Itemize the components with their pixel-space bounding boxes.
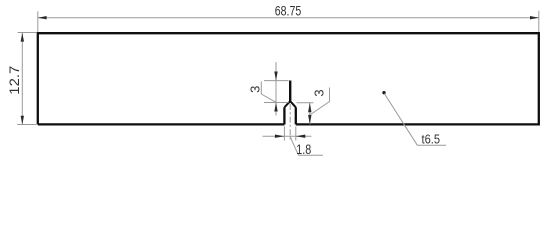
- dimension 1.8 right arrowhead: [296, 135, 306, 138]
- dimension 3 (left) extension line bottom: [264, 102, 289, 104]
- svg-text:t6.5: t6.5: [422, 131, 441, 146]
- dimension 1.8 extension line left: [283, 126, 285, 140]
- dimension 12.7 top arrowhead: [21, 33, 24, 42]
- dimension 3 (right) dimension line: [309, 103, 311, 125]
- notch slit: [289, 81, 291, 102]
- dimension 1.8 extension line right: [295, 126, 297, 140]
- notch slot right side: [295, 107, 297, 124]
- dimension 3 (right) top arrowhead: [308, 103, 311, 113]
- dimension 68.75 right arrowhead: [530, 16, 539, 19]
- svg-text:68.75: 68.75: [275, 3, 302, 18]
- thickness callout leader: [384, 94, 446, 146]
- dimension 3 (right) leader: [310, 88, 330, 116]
- dimension 3 (left) leader: [261, 82, 276, 103]
- dimension 3 (left) bottom arrowhead: [274, 103, 277, 112]
- dimension 68.75 extension line left: [37, 11, 39, 32]
- dimension 12.7 dimension line: [21, 33, 23, 125]
- dimension 3 (left) dimension line: [275, 62, 277, 116]
- dimension 68.75 dimension line: [38, 17, 539, 19]
- svg-text:3: 3: [248, 86, 263, 93]
- svg-text:3: 3: [312, 89, 327, 96]
- dimension 1.8 leader: [290, 136, 323, 155]
- notch slot left side: [283, 107, 285, 124]
- notch centerline (dashed): [289, 104, 291, 140]
- thickness callout dot: [382, 91, 385, 94]
- dimension 68.75 extension line right: [538, 11, 540, 32]
- dimension 1.8 left arrowhead: [275, 135, 285, 138]
- svg-text:1.8: 1.8: [296, 142, 311, 157]
- dimension 1.8 dimension line: [263, 135, 312, 137]
- dimension 3 (right, slot depth) extension line: [297, 102, 314, 104]
- dimension 3 (right) bottom arrowhead: [308, 115, 311, 125]
- dimension 3 (left) top arrowhead: [274, 72, 277, 81]
- dimension 3 (left, slit depth) extension line top: [264, 80, 289, 82]
- dimension 68.75 left arrowhead: [38, 16, 47, 19]
- notch taper right: [290, 101, 296, 107]
- dimension 12.7 bottom arrowhead: [21, 116, 24, 125]
- plate outline: [38, 33, 539, 124]
- dimension 12.7 extension line bottom: [17, 124, 36, 126]
- dimension 12.7 extension line top: [18, 32, 37, 34]
- svg-text:12.7: 12.7: [7, 66, 22, 95]
- notch taper left: [284, 101, 290, 107]
